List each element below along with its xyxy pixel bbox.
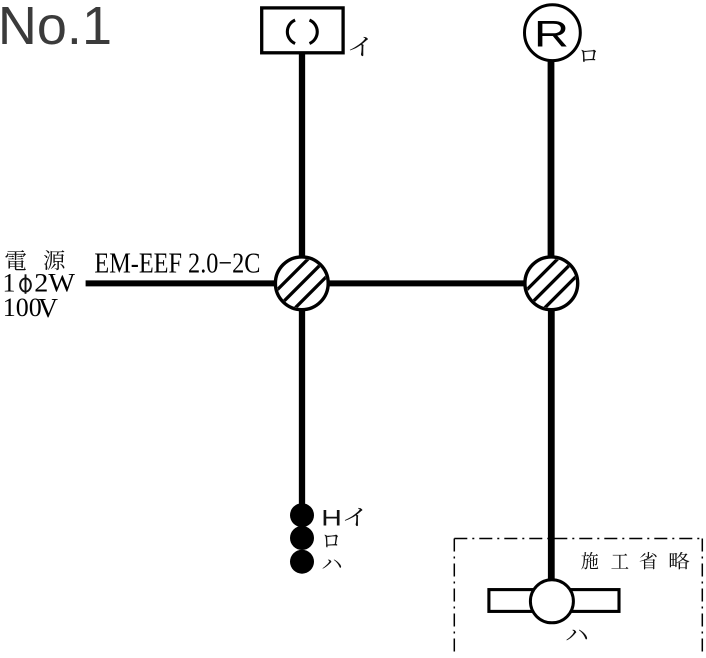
- label kanji 電 (power source): [5, 250, 26, 270]
- svg-text:R: R: [534, 14, 569, 55]
- label kanji 略: [670, 552, 690, 569]
- wire: lamp receptacle ロ down to junction box B: [548, 60, 555, 283]
- label イ for switch 1: [345, 508, 363, 526]
- switch dot 2 (ロ): [290, 526, 314, 550]
- label φ (phi) stem: [25, 274, 27, 294]
- lamp receptacle ロ : outer circle: [525, 5, 581, 61]
- svg-text:100: 100: [3, 293, 42, 322]
- svg-text:No.1: No.1: [0, 0, 112, 56]
- label kanji 施 (construction omitted): [581, 552, 598, 570]
- fluorescent lamp fixture : center circle: [530, 580, 573, 623]
- junction box A (hatched circle): [275, 257, 328, 310]
- svg-text:H: H: [321, 506, 342, 530]
- label ロ for switch 2: [325, 535, 338, 548]
- junction box B (hatched circle): [525, 257, 578, 310]
- label kanji 源 (power source): [44, 250, 64, 270]
- construction-omitted dash-dot box: [454, 539, 702, 657]
- ceiling rosette left paren: [287, 20, 295, 43]
- label φ (phi) loop: [20, 278, 31, 291]
- wire: junction box A to junction box B: [302, 280, 551, 286]
- label イ for ceiling rosette: [350, 37, 368, 56]
- ceiling rosette (angular) box for イ: [262, 8, 343, 53]
- svg-text:EM-EEF 2.0−2C: EM-EEF 2.0−2C: [94, 248, 260, 280]
- wire: power feed horizontal into junction box A: [86, 280, 302, 286]
- switch dot 3 (ハ): [290, 550, 314, 574]
- label ハ for switch 3: [322, 559, 341, 568]
- wire: junction box A down to switch group: [299, 283, 305, 505]
- svg-text:V: V: [38, 292, 58, 323]
- label ロ for lamp receptacle R: [581, 50, 596, 62]
- wire: ceiling rosette イ down to junction box A: [299, 53, 305, 283]
- wire: junction box B down to lamp fixture ハ: [548, 283, 555, 601]
- fluorescent lamp fixture : body rect: [489, 590, 619, 612]
- switch dot 1 (Hイ): [290, 503, 314, 527]
- label ハ for lamp fixture: [566, 630, 587, 641]
- label kanji 工: [611, 554, 628, 569]
- label kanji 省: [640, 552, 657, 570]
- ceiling rosette right paren: [310, 20, 318, 43]
